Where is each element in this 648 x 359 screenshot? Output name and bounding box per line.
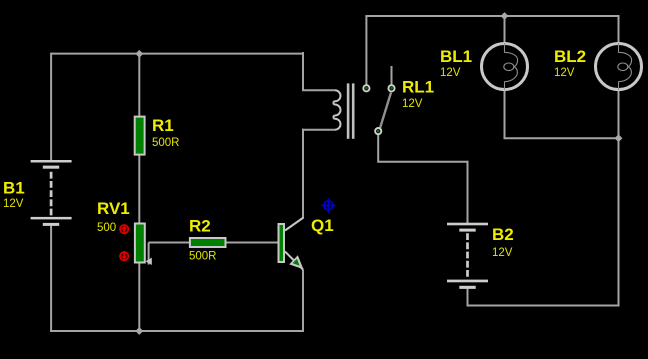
battery B2 [447,223,488,289]
wire top-left rail [51,53,303,55]
svg-text:RL1: RL1 [402,78,434,97]
wire R1 top [138,54,140,117]
svg-text:BL1: BL1 [440,47,472,66]
svg-text:12V: 12V [3,198,24,210]
svg-text:500R: 500R [152,137,180,149]
transistor Q1 collector stroke [285,218,304,231]
transistor Q1 emitter arrowhead [289,255,303,269]
potentiometer RV1 wiper arm [148,243,150,265]
node junction top-right rail [501,12,509,20]
transistor Q1 bar [279,224,285,262]
RV1 decrease indicator (red down arrow) [120,252,128,260]
svg-text:12V: 12V [440,67,461,79]
svg-text:12V: 12V [492,247,513,259]
lamp BL2 filament [618,43,632,90]
svg-text:R1: R1 [152,116,174,135]
battery B1 dashed cell line [50,172,53,216]
relay coil RL1 [333,90,340,129]
wire wiper to R2 [149,242,191,244]
relay switch arm [380,93,391,129]
lamp BL2 bulb [596,44,642,90]
svg-text:B2: B2 [492,225,514,244]
potentiometer RV1 body [135,224,145,263]
move cursor crosshair [321,198,335,212]
wire BL2 top lead [618,15,620,44]
lamp BL1 bulb [482,44,528,90]
wire relay common to B2 [378,135,468,162]
wire coil to collector [302,129,304,218]
wire BL1 bottom lead [504,90,506,140]
wire coil top stub [302,89,335,91]
wire RV1 bottom [138,263,140,331]
svg-text:500R: 500R [189,251,217,263]
svg-text:BL2: BL2 [554,47,586,66]
wire R1 to RV1 [138,155,140,223]
wire B1 top lead [50,53,52,161]
wire BL2 bottom lead [618,90,620,307]
wire BL1 top lead [504,15,506,44]
svg-text:RV1: RV1 [97,199,130,218]
RV1 increase indicator (red up arrow) [120,225,128,233]
potentiometer RV1 wiper arrow [146,258,152,265]
battery B1 [31,160,72,226]
wire bottom-left rail [50,330,304,332]
svg-text:Q1: Q1 [311,216,334,235]
transistor Q1 emitter stroke [285,252,303,270]
wire coil bottom stub [302,129,335,131]
node junction bottom-left [135,327,143,335]
svg-text:R2: R2 [189,217,211,236]
relay terminal common [375,128,381,134]
wire emitter down [302,270,304,333]
wire coil feed down [302,52,304,91]
wire B2 bottom lead [467,289,469,307]
lamp BL1 filament [504,43,518,90]
wire relay left terminal up [365,16,367,85]
relay terminal left [363,85,369,91]
battery B2 dashed cell line [466,233,469,278]
relay core bars [347,83,350,138]
wire top-right rail [365,15,618,17]
wire R2 to Q1 base [226,242,278,244]
wire bottom-right rail [467,305,620,307]
svg-text:12V: 12V [402,98,423,110]
node junction lamp link [615,134,623,142]
wire relay right terminal stub [391,66,393,85]
svg-text:12V: 12V [554,67,575,79]
resistor R1 [135,117,145,155]
resistor R2 [190,238,226,247]
wire BL1 to BL2 link [505,137,619,139]
wire B1 bottom lead [50,226,52,333]
svg-text:500: 500 [97,222,116,234]
svg-text:B1: B1 [3,179,25,198]
wire B2 top lead [467,161,469,223]
relay terminal right [388,85,394,91]
node junction top-left [135,50,143,58]
